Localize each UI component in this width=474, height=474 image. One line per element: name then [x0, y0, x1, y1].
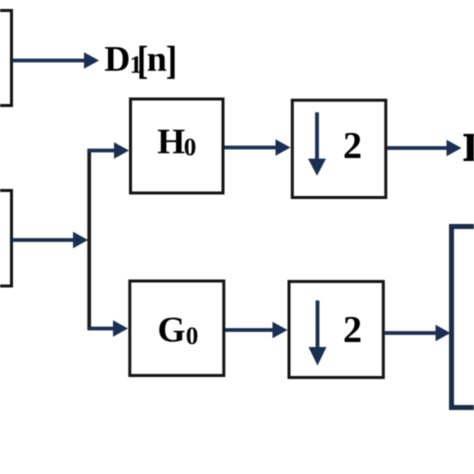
wire: arrow downsampler to D2 label — [387, 140, 462, 157]
downsampler box top (down-arrow 2) — [292, 100, 386, 197]
wire: arrow from middle-left box to branch node — [12, 232, 88, 249]
wire: arrow from top-left box to D1[n] — [12, 52, 99, 69]
wire: arrow branch to G0 — [88, 320, 128, 337]
wire: arrow branch to H0 — [88, 142, 129, 159]
input box top-left (cut off at left edge) — [0, 11, 12, 106]
wire: arrow G0 to downsampler — [225, 322, 288, 339]
label D2 (cut off at right edge) — [464, 134, 474, 160]
wire: vertical branch line — [87, 149, 91, 330]
label D1[n] — [105, 46, 175, 79]
filter box H0 — [131, 99, 224, 193]
downsampler box bottom (down-arrow 2) — [289, 282, 383, 378]
wire: arrow H0 to downsampler — [224, 139, 291, 156]
next-stage box (cut off at right edge) — [452, 227, 474, 408]
wire: arrow downsampler to next-stage box — [384, 325, 451, 342]
input box middle-left (cut off at left edge) — [0, 191, 12, 287]
filter box G0 — [130, 281, 224, 376]
